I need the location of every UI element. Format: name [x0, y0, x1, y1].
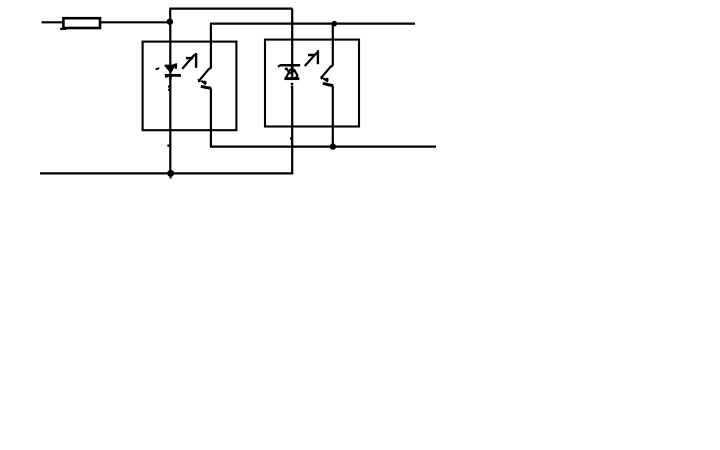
wire node A up to top of loop [169, 9, 171, 23]
wire Q1 emitter down [210, 88, 212, 146]
phototransistor Q1 [199, 68, 211, 88]
dash 2 below D2 [291, 86, 294, 89]
stray mark left of LED D1 [156, 68, 160, 69]
wire D2 cathode down to bottom rail end [291, 88, 293, 174]
node D1 cathode junction dot [168, 170, 174, 178]
wire D2 anode vertical through symbol [291, 64, 293, 80]
node Q2 collector junction dot [332, 21, 337, 26]
optocoupler U2 box [265, 40, 359, 127]
nub on D2 cathode wire [290, 137, 292, 139]
wire loop right side down to LED D2 anode [291, 9, 293, 65]
wire Q2 emitter down to mid rail [332, 86, 334, 147]
wire LED D1 cathode down to bottom rail [169, 85, 171, 174]
node A junction dot [167, 19, 172, 24]
nub 2 on D1 cathode wire [168, 89, 170, 91]
wire bottom return rail [40, 172, 293, 174]
wire top of loop horizontal [169, 8, 292, 10]
wire Q2 collector from top rail [332, 24, 334, 66]
dash 1 below D2 [291, 83, 294, 86]
phototransistor Q2 [321, 65, 333, 85]
node Q2 emitter junction dot [330, 144, 335, 149]
wire top output rail [210, 23, 415, 25]
light arrow of U1 [182, 53, 196, 69]
LED D1 [165, 63, 181, 86]
light arrow of U2 [305, 50, 318, 66]
wire node A down to LED D1 anode [169, 22, 171, 66]
wire Q1 collector from top rail [210, 24, 212, 69]
wire input lead left [42, 21, 63, 23]
optocoupler U1 box [143, 42, 237, 131]
nub 3 on D1 cathode wire [167, 145, 169, 147]
resistor R1 [60, 18, 100, 29]
wire R1 to node A [101, 21, 170, 23]
LED D2 [278, 65, 300, 79]
wire mid emitter rail [210, 146, 436, 148]
nub on D1 cathode wire [168, 86, 170, 88]
